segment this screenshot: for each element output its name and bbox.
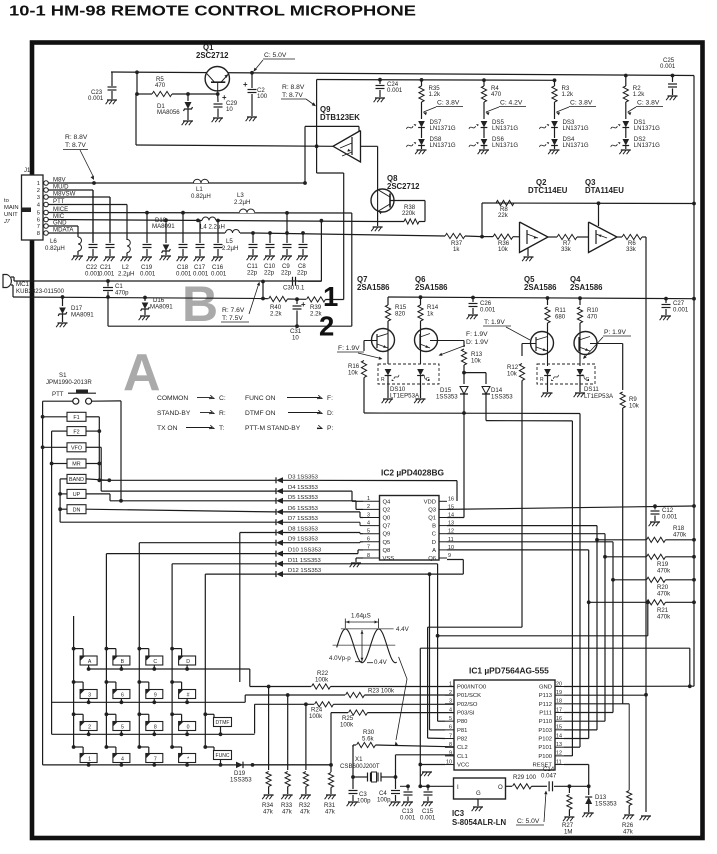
IC1 pin 1 P00/INTO0 <box>445 686 454 688</box>
svg-text:LT1EP53A: LT1EP53A <box>584 393 614 400</box>
svg-text:MA8091: MA8091 <box>150 304 173 311</box>
svg-text:1: 1 <box>323 281 338 312</box>
svg-text:R: 8.8V: R: 8.8V <box>65 134 88 141</box>
ground DS11 R <box>547 376 549 393</box>
wire PTT left common <box>43 400 73 402</box>
resistor R24 100k <box>315 702 334 707</box>
svg-text:MC1: MC1 <box>16 281 29 288</box>
wire IC2 Q3 pin15 to C12 net <box>447 506 694 509</box>
svg-text:8: 8 <box>154 724 157 730</box>
svg-text:LN1371G: LN1371G <box>430 142 456 149</box>
IC1 pin 6 P81 <box>445 729 454 731</box>
svg-text:1k: 1k <box>427 311 434 318</box>
wire R20 to pin17 vertical <box>612 580 614 713</box>
svg-text:22p: 22p <box>247 270 258 277</box>
IC1 pin 5 P80 <box>445 720 454 722</box>
svg-text:10: 10 <box>446 759 452 765</box>
diode D17 zener MA8091 <box>62 297 64 306</box>
IC1 pin 18 P112 <box>555 703 564 705</box>
key C <box>137 647 141 651</box>
wire M8V <box>48 182 305 184</box>
svg-text:47k: 47k <box>263 809 274 816</box>
wire IC1 pin15 P103 <box>564 729 597 731</box>
svg-text:5: 5 <box>121 724 124 730</box>
transistor Q3 DTA114EU <box>589 222 618 253</box>
IC2 pin 5 Q9 <box>363 533 380 535</box>
svg-text:0.001: 0.001 <box>88 95 104 102</box>
diode D16 zener MA8091 <box>144 298 146 302</box>
wire IC2 B pin13 to R18 <box>447 525 597 527</box>
svg-text:R29 100: R29 100 <box>513 774 537 781</box>
wire M8VSW <box>48 196 110 198</box>
wire R8 supply rail <box>482 202 694 205</box>
svg-text:220k: 220k <box>402 210 416 217</box>
svg-text:S1: S1 <box>59 372 67 379</box>
svg-text:MA8091: MA8091 <box>71 312 94 319</box>
svg-text:2: 2 <box>88 724 91 730</box>
IC1 pin 10 VCC <box>445 764 454 766</box>
IC1 pin 14 P102 <box>555 738 564 740</box>
svg-text:4.0Vp-p: 4.0Vp-p <box>329 655 351 662</box>
svg-text:P102: P102 <box>538 737 552 743</box>
svg-text:DTMF: DTMF <box>216 720 230 726</box>
capacitor C14 0.047 <box>548 781 550 791</box>
svg-text:MA8091: MA8091 <box>152 223 175 230</box>
wire mic signal <box>11 276 14 278</box>
svg-text:8: 8 <box>37 231 40 237</box>
switch UP <box>67 489 86 498</box>
svg-text:0.001: 0.001 <box>660 63 676 70</box>
svg-text:8: 8 <box>367 553 370 559</box>
wire IC1 pin17 P111 <box>564 712 613 714</box>
svg-text:Q3: Q3 <box>428 507 436 513</box>
wire R5 node <box>136 72 138 94</box>
resistor R39 2.2k <box>297 298 306 300</box>
svg-text:1M: 1M <box>564 829 572 836</box>
svg-text:22p: 22p <box>281 270 292 277</box>
svg-text:L1: L1 <box>196 186 203 193</box>
wire D12 net <box>205 573 276 575</box>
capacitor C23 <box>111 72 113 86</box>
wire D4 net <box>101 490 276 492</box>
svg-text:F: 1.9V: F: 1.9V <box>466 331 488 338</box>
transistor Q7 2SA1586 <box>372 329 395 352</box>
svg-text:P:: P: <box>327 425 333 432</box>
capacitor C19 <box>146 213 148 243</box>
svg-text:1SS353: 1SS353 <box>436 394 458 401</box>
svg-text:Q9: Q9 <box>383 532 391 538</box>
svg-text:1.2k: 1.2k <box>429 91 441 98</box>
svg-text:16: 16 <box>448 496 454 502</box>
svg-text:7: 7 <box>367 545 370 551</box>
resistor R5 <box>137 93 152 95</box>
svg-text:D: D <box>186 659 190 665</box>
IC2 pin 4 Q7 <box>363 525 380 527</box>
svg-text:MA8056: MA8056 <box>157 109 180 116</box>
svg-text:P82: P82 <box>457 737 467 743</box>
wire IC1 pin11 RESET <box>564 764 589 766</box>
svg-text:CSB600J200T: CSB600J200T <box>340 763 380 770</box>
resistor R32 47k <box>305 704 307 770</box>
resistor R25 100k <box>330 713 332 767</box>
wire LED rail <box>317 79 555 82</box>
wire Q7 Q6 Q5 Q4 emitter rail <box>388 297 694 299</box>
key 7 <box>137 745 141 749</box>
svg-text:#: # <box>187 692 190 698</box>
LED DS10 R element <box>385 369 392 376</box>
svg-text:47k: 47k <box>623 829 634 836</box>
resistor R35 <box>420 78 424 82</box>
svg-text:P03/SI: P03/SI <box>457 711 475 717</box>
resistor R21 470k <box>587 600 591 604</box>
wire Q9 output to Q8 <box>361 145 378 147</box>
IC2 pin 10 A <box>439 549 447 551</box>
wire IC1 pin6 P81 <box>430 729 446 731</box>
svg-text:KUB2823-011500: KUB2823-011500 <box>16 288 65 295</box>
svg-text:3: 3 <box>37 195 40 201</box>
key DTMF <box>203 712 207 716</box>
svg-text:Q1: Q1 <box>428 516 436 522</box>
svg-text:2SC2712: 2SC2712 <box>196 51 229 60</box>
LED pair DS10 dashed box <box>378 364 439 384</box>
transistor Q9 DTB123EK <box>333 131 361 163</box>
svg-text:P113: P113 <box>539 693 552 699</box>
svg-text:D9 1SS353: D9 1SS353 <box>288 537 318 543</box>
capacitor C16 <box>217 221 219 244</box>
svg-text:P: 1.9V: P: 1.9V <box>604 329 626 336</box>
wire D14 bottom bus <box>486 420 572 422</box>
svg-text:3: 3 <box>88 692 91 698</box>
IC IC3 S-8054ALR-LN <box>428 785 454 787</box>
IC2 pin 13 B <box>439 525 447 527</box>
svg-text:P01/SCK: P01/SCK <box>457 693 481 699</box>
svg-text:0.001: 0.001 <box>420 815 436 822</box>
svg-text:470p: 470p <box>115 290 129 297</box>
svg-text:T: 1.9V: T: 1.9V <box>484 319 505 326</box>
microphone MC1 KUB2823-011500 <box>3 275 11 288</box>
svg-text:0.001: 0.001 <box>673 307 689 314</box>
ground DS11 G <box>579 376 581 393</box>
transistor Q5 2SA1586 <box>531 332 554 355</box>
LED pair DS11 dashed box <box>537 364 595 384</box>
diode D12 1SS353 <box>276 571 283 577</box>
svg-text:1.2k: 1.2k <box>633 91 645 98</box>
switch F2 <box>67 427 86 436</box>
svg-text:3: 3 <box>449 699 452 705</box>
ground LED column R4 <box>483 146 485 150</box>
svg-text:G: G <box>586 377 590 383</box>
svg-text:X1: X1 <box>355 756 363 763</box>
capacitor C4 100p <box>395 777 397 789</box>
svg-text:LT1EP53A: LT1EP53A <box>390 393 420 400</box>
LED DS11 R element <box>544 369 551 376</box>
svg-text:33k: 33k <box>626 246 637 253</box>
svg-text:P112: P112 <box>539 702 552 708</box>
svg-text:100k: 100k <box>309 713 323 720</box>
key FUNC <box>203 745 207 749</box>
capacitor C1 470p <box>103 287 113 289</box>
LED DS7 <box>418 121 425 128</box>
svg-text:C:: C: <box>219 395 226 402</box>
svg-text:1SS353: 1SS353 <box>491 394 513 401</box>
svg-text:15: 15 <box>556 725 562 731</box>
svg-text:1: 1 <box>367 496 370 502</box>
wire MIC drop to signal <box>320 221 322 282</box>
LED DS5 <box>481 121 488 128</box>
svg-text:9: 9 <box>449 751 452 757</box>
wire IC2 C pin12 to R19 <box>447 533 605 535</box>
svg-text:D4 1SS353: D4 1SS353 <box>288 485 318 491</box>
svg-text:PTT-M STAND-BY: PTT-M STAND-BY <box>245 425 301 432</box>
IC1 pin 20 GND <box>555 686 564 688</box>
capacitor C29 polarized <box>217 94 219 102</box>
diode D4 1SS353 <box>276 488 283 494</box>
resistor R4 <box>482 78 486 82</box>
svg-text:Q2: Q2 <box>383 507 391 513</box>
svg-text:2SC2712: 2SC2712 <box>387 182 420 191</box>
svg-text:UNIT: UNIT <box>4 212 18 218</box>
svg-text:VDD: VDD <box>424 499 436 505</box>
svg-text:MR: MR <box>72 462 80 468</box>
svg-text:2SA1586: 2SA1586 <box>524 283 557 292</box>
wire pin6 drop <box>429 574 431 730</box>
wire IC1 pin10 VCC <box>420 764 445 766</box>
inductor L6 vertical <box>78 237 82 251</box>
svg-text:D8 1SS353: D8 1SS353 <box>288 527 318 533</box>
svg-text:11: 11 <box>556 759 562 765</box>
connector J1 <box>22 175 44 240</box>
diode D10 1SS353 <box>276 551 283 557</box>
resistor R37 1k <box>445 233 465 238</box>
wire Q7 base bottom bus <box>364 412 580 415</box>
svg-text:I: I <box>457 784 459 791</box>
wire PTT <box>48 204 127 206</box>
inductor L2 vertical <box>126 239 128 240</box>
IC1 pin 11 RESET <box>555 764 564 766</box>
svg-text:G: G <box>476 790 481 797</box>
svg-text:MAIN: MAIN <box>4 205 19 211</box>
svg-text:D:: D: <box>327 410 334 417</box>
svg-text:O: O <box>498 784 503 791</box>
svg-text:D6 1SS353: D6 1SS353 <box>288 506 318 512</box>
svg-text:DS11: DS11 <box>584 386 599 393</box>
svg-text:47k: 47k <box>300 809 311 816</box>
wire IC1 pin8 CL2 <box>445 746 454 748</box>
switch BAND <box>67 474 86 483</box>
svg-text:A: A <box>123 344 161 402</box>
wire D11 net <box>172 563 276 565</box>
key A <box>72 647 76 651</box>
svg-text:L3: L3 <box>237 192 244 199</box>
ground Q8 emitter <box>377 212 379 226</box>
svg-text:820: 820 <box>395 311 406 318</box>
svg-text:LN1371G: LN1371G <box>634 142 660 149</box>
node Q9 input junction <box>315 144 319 148</box>
svg-text:B: B <box>121 659 125 665</box>
svg-text:470k: 470k <box>657 614 671 621</box>
svg-text:100: 100 <box>257 93 268 100</box>
svg-text:10: 10 <box>292 335 299 342</box>
svg-text:LN1371G: LN1371G <box>492 125 518 132</box>
capacitor C18 <box>182 213 184 243</box>
IC2 pin 15 Q3 <box>439 508 447 510</box>
IC1 pin 19 P113 <box>555 694 564 696</box>
IC1 pin 16 P110 <box>555 720 564 722</box>
diode D18 zener MA8091 <box>165 220 167 243</box>
svg-text:4: 4 <box>367 520 370 526</box>
wire MICE <box>48 212 352 215</box>
svg-text:470: 470 <box>491 91 502 98</box>
wire MU/D <box>48 189 93 191</box>
capacitor C31 10 polarized <box>295 297 299 301</box>
svg-text:R: R <box>540 377 544 383</box>
resistor R14 1k <box>420 297 422 305</box>
diode D14 1SS353 <box>464 372 486 374</box>
LED DS1 <box>622 121 629 128</box>
capacitor C8 22p <box>301 231 305 235</box>
wire ABCD row to R22 <box>249 669 251 687</box>
resistor R30 5.6k <box>352 745 354 747</box>
svg-text:L4 2.2µH: L4 2.2µH <box>200 224 225 231</box>
svg-text:100k: 100k <box>340 722 354 729</box>
wire IC2 A pin10 to R21 <box>447 549 589 551</box>
transistor Q6 2SA1586 <box>415 329 438 352</box>
capacitor C25 <box>671 74 675 78</box>
IC2 pin 6 Q5 <box>363 541 380 543</box>
svg-text:7: 7 <box>449 733 452 739</box>
wire hook top <box>419 648 421 764</box>
wire D3 net to IC2 VDD <box>99 479 276 481</box>
svg-text:PTT: PTT <box>52 391 64 398</box>
IC2 pin 1 Q4 <box>363 500 380 502</box>
diode D6 1SS353 <box>276 509 283 515</box>
svg-text:10k: 10k <box>471 358 482 365</box>
svg-text:Q4: Q4 <box>383 499 392 505</box>
resistor R13 10k <box>463 341 465 348</box>
resistor R38 220k base <box>390 200 425 202</box>
svg-text:2.2µH: 2.2µH <box>118 271 134 278</box>
svg-text:0.001: 0.001 <box>140 271 156 278</box>
svg-text:1: 1 <box>37 181 40 187</box>
svg-text:2SA1586: 2SA1586 <box>415 283 448 292</box>
svg-text:0.001: 0.001 <box>662 514 678 521</box>
svg-text:FUNC ON: FUNC ON <box>245 395 276 402</box>
diode D1 zener MA8056 <box>187 94 189 101</box>
IC2 pin 12 C <box>439 533 447 535</box>
svg-text:6: 6 <box>121 692 124 698</box>
svg-text:13: 13 <box>556 742 562 748</box>
svg-text:Q6: Q6 <box>428 556 436 562</box>
wire Q1 base to Q9 input <box>135 94 137 145</box>
svg-text:9: 9 <box>448 553 451 559</box>
svg-text:J7: J7 <box>3 219 11 225</box>
svg-text:9: 9 <box>154 692 157 698</box>
wire D5 net <box>110 500 276 502</box>
keypad row wire 369# <box>52 701 246 703</box>
wire mic lower <box>11 284 13 286</box>
svg-text:1: 1 <box>88 756 91 762</box>
svg-text:680: 680 <box>555 314 566 321</box>
transistor Q4 2SA1586 <box>574 332 597 355</box>
svg-text:470: 470 <box>155 82 166 89</box>
wire IC1 pin5 P80 <box>438 720 445 722</box>
key 9 <box>137 680 141 684</box>
wire LED rail feed snake <box>316 80 318 174</box>
wire Q9 supply from M8V <box>304 126 306 183</box>
svg-text:2SA1586: 2SA1586 <box>570 283 603 292</box>
svg-text:2: 2 <box>367 504 370 510</box>
svg-text:D: D <box>432 540 436 546</box>
svg-text:C30 0.1: C30 0.1 <box>283 285 305 292</box>
svg-text:P00/INTO0: P00/INTO0 <box>457 685 487 691</box>
svg-text:FUNC: FUNC <box>216 753 230 759</box>
svg-text:L6: L6 <box>50 238 57 245</box>
IC1 pin 2 P01/SCK <box>445 694 454 696</box>
ground LED column R35 <box>421 146 423 150</box>
wire D11 branch right <box>436 634 440 638</box>
capacitor C2 100 <box>251 73 253 88</box>
wire C13 tie <box>400 785 408 787</box>
svg-text:VSS: VSS <box>383 556 395 562</box>
resistor R3 <box>553 78 557 82</box>
svg-text:C: 5.0V: C: 5.0V <box>517 818 540 825</box>
svg-text:IC3: IC3 <box>452 809 465 818</box>
svg-text:R: 8.8V: R: 8.8V <box>282 84 305 91</box>
svg-text:DTA114EU: DTA114EU <box>585 186 624 195</box>
wire D7 net <box>60 521 276 523</box>
resistor R15 820 <box>387 297 389 305</box>
svg-text:1: 1 <box>449 681 452 687</box>
wire D9 net <box>139 542 276 544</box>
svg-text:7: 7 <box>37 224 40 230</box>
wire Q3 supply <box>598 203 600 226</box>
resistor R20 470k <box>611 578 615 582</box>
svg-text:LN1371G: LN1371G <box>563 125 589 132</box>
key B <box>105 647 109 651</box>
svg-text:J1: J1 <box>24 168 31 174</box>
wire PTT right <box>92 400 121 402</box>
svg-text:IC2 µPD4028BG: IC2 µPD4028BG <box>381 468 444 478</box>
svg-text:470k: 470k <box>657 568 671 575</box>
wire R9 to pin18 <box>623 703 630 705</box>
svg-text:D7 1SS353: D7 1SS353 <box>288 516 318 522</box>
svg-text:D: 1.9V: D: 1.9V <box>466 339 489 346</box>
svg-text:470k: 470k <box>657 591 671 598</box>
svg-text:10k: 10k <box>348 370 359 377</box>
svg-text:T:: T: <box>219 425 224 432</box>
svg-text:T: 8.7V: T: 8.7V <box>282 92 303 99</box>
ground LED column R3 <box>554 146 556 150</box>
svg-text:3: 3 <box>367 512 370 518</box>
svg-text:14: 14 <box>556 733 562 739</box>
svg-text:+: + <box>301 300 306 309</box>
LED DS2 <box>622 139 629 146</box>
diode D8 1SS353 <box>276 530 283 536</box>
svg-text:4: 4 <box>449 707 452 713</box>
svg-text:CL1: CL1 <box>457 754 468 760</box>
wire GND pin7 <box>48 225 78 227</box>
svg-text:0.4V: 0.4V <box>374 659 388 666</box>
resistor R8 22k <box>496 200 514 205</box>
svg-text:S-8054ALR-LN: S-8054ALR-LN <box>452 818 507 827</box>
node top rail junctions <box>135 70 139 74</box>
svg-text:2.2µH: 2.2µH <box>222 245 238 252</box>
svg-text:10k: 10k <box>629 403 640 410</box>
svg-text:6: 6 <box>367 537 370 543</box>
wire 369 row to R23 <box>244 695 246 702</box>
svg-text:5: 5 <box>37 211 40 217</box>
LED DS4 <box>551 139 558 146</box>
